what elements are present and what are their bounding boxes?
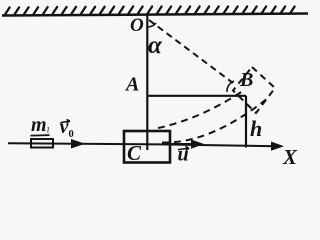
svg-text:m: m (31, 114, 47, 136)
svg-text:O: O (130, 15, 144, 36)
dashed string O to B (149, 20, 233, 83)
dashed block at position B (233, 67, 275, 113)
dashed swing arc upper (158, 92, 242, 129)
svg-text:C: C (127, 141, 142, 165)
wire: main horizontal axis (8, 143, 278, 146)
angle arc at B (227, 81, 234, 92)
v0 arrowhead on axis (71, 139, 85, 149)
svg-text:A: A (124, 74, 139, 96)
svg-text:0: 0 (69, 129, 74, 140)
wire: vertical string O down through C (146, 15, 148, 150)
block C (124, 131, 170, 163)
angle arc at O (148, 23, 156, 27)
svg-text:X: X (282, 145, 298, 169)
ceiling hatching (5, 7, 295, 15)
svg-text:1: 1 (46, 125, 50, 134)
X axis arrowhead (271, 142, 284, 151)
wire: horizontal A to B (147, 95, 246, 97)
svg-text:α: α (148, 32, 163, 59)
u arrow on axis (171, 143, 196, 145)
ceiling line (2, 14, 308, 16)
dashed swing arc lower (162, 98, 268, 143)
svg-text:h: h (250, 116, 262, 141)
wire: vertical B down to axis (245, 96, 247, 148)
bullet m1 block (31, 139, 53, 148)
